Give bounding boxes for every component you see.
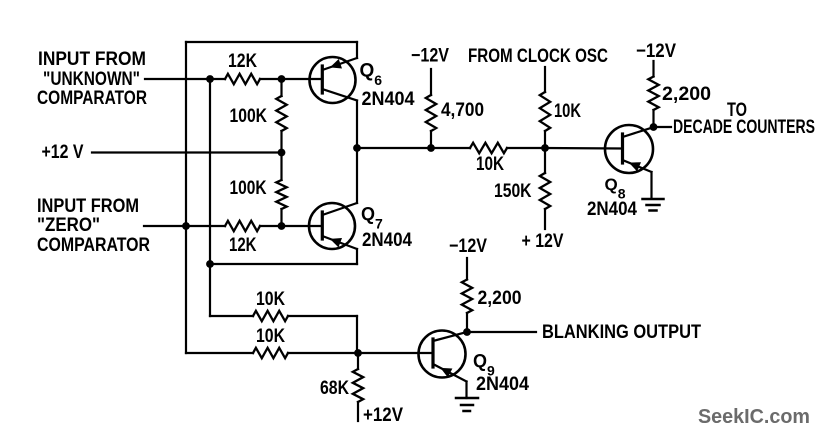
wire unknown input to 12K [145, 78, 225, 80]
wire collector node to 10K [357, 147, 470, 149]
svg-text:COMPARATOR: COMPARATOR [37, 235, 150, 256]
wire 10K vert to node [544, 131, 546, 148]
node 4,700 / signal wire [427, 144, 435, 152]
svg-text:−12V: −12V [449, 236, 487, 257]
node Q9 base / 10K / 68K [354, 349, 362, 357]
resistor 10K series [470, 143, 507, 153]
wire Q6 emitter riser [356, 42, 358, 58]
svg-text:−12V: −12V [411, 46, 449, 67]
wire node to decade counters [654, 126, 671, 128]
ground Q9 emitter [456, 398, 478, 411]
wire Q7 emitter drop [356, 249, 358, 264]
wire 2200 to collector node Q9 [466, 313, 468, 332]
svg-text:FROM CLOCK OSC: FROM CLOCK OSC [468, 46, 608, 67]
wire top rail [186, 41, 357, 43]
wire Q7 emitter rail [210, 263, 357, 265]
resistor 4,700 [426, 95, 436, 131]
wire +12V rail [92, 151, 282, 153]
svg-text:150K: 150K [494, 181, 532, 202]
node Q7 emitter rail / inner bus [206, 260, 214, 268]
resistor 10K row2 [253, 348, 288, 358]
svg-text:"ZERO": "ZERO" [37, 215, 100, 236]
wire -12V to 4700 [430, 69, 432, 95]
svg-text:12K: 12K [228, 51, 257, 72]
wire 4700 to node [430, 131, 432, 148]
wire left vertical bus [185, 42, 187, 353]
wire Q6 collector drop [356, 101, 358, 149]
node Q8 collector / 2,200 [650, 123, 658, 131]
resistor 12K upper [225, 74, 260, 84]
svg-text:+12V: +12V [363, 405, 403, 426]
resistor 10K clock [540, 92, 550, 131]
node 12K / 100K / Q7 base [278, 222, 286, 230]
wire -12V to 2200 Q8 [652, 61, 654, 77]
wire -12V to 2200 Q9 [466, 258, 468, 280]
wire row1 drop to row2 [356, 316, 358, 353]
resistor 68K [353, 369, 363, 402]
svg-text:100K: 100K [230, 106, 268, 127]
svg-text:68K: 68K [320, 378, 349, 399]
wire row1 10K left [210, 315, 253, 317]
wire 10K to clock node [507, 147, 545, 149]
resistor 150K [540, 173, 550, 209]
node zero input / left bus [182, 222, 190, 230]
wire 100K chain mid stub [280, 131, 282, 180]
svg-text:SeekIC.com: SeekIC.com [698, 406, 810, 428]
svg-text:100K: 100K [230, 178, 267, 199]
wire 68K to +12V [357, 402, 359, 421]
transistor Q6 [310, 57, 358, 103]
wire 100K chain upper stub [280, 79, 282, 96]
wire Q8 emitter drop [650, 172, 652, 198]
resistor 2,200 Q9 [462, 280, 472, 314]
wire blanking output [467, 331, 536, 333]
svg-text:2,200: 2,200 [662, 84, 711, 105]
wire 100K chain lower stub [280, 209, 282, 226]
svg-text:+ 12V: + 12V [522, 231, 564, 252]
node collector junction [353, 144, 361, 152]
wire 12K to Q6 base [260, 78, 322, 80]
transistor Q8 [605, 125, 654, 173]
wire node to 150K [544, 148, 546, 173]
svg-text:BLANKING OUTPUT: BLANKING OUTPUT [542, 322, 701, 343]
svg-text:10K: 10K [256, 289, 285, 310]
resistor 2,200 Q8 [648, 77, 658, 111]
svg-text:10K: 10K [256, 326, 285, 347]
ground Q8 emitter [643, 199, 664, 211]
svg-text:INPUT FROM: INPUT FROM [37, 196, 139, 217]
wire row2 10K to Q9 base [288, 352, 433, 354]
svg-text:2N404: 2N404 [476, 374, 529, 395]
svg-text:12K: 12K [229, 235, 257, 256]
wire clock node to Q8 base [545, 147, 623, 150]
node unknown input / inner bus [206, 75, 214, 83]
node Q9 collector / 2,200 / blanking [463, 328, 471, 336]
svg-text:"UNKNOWN": "UNKNOWN" [43, 69, 140, 90]
node 12K / 100K / Q6 base [278, 75, 286, 83]
transistor Q9 [419, 331, 468, 382]
wire 150K to +12V [544, 209, 546, 229]
node clock / 10K / 150K [541, 144, 549, 152]
svg-text:4,700: 4,700 [441, 100, 484, 121]
wire row1 10K right [288, 315, 357, 317]
svg-text:10K: 10K [476, 154, 504, 175]
svg-text:2N404: 2N404 [587, 199, 637, 220]
svg-text:DECADE COUNTERS: DECADE COUNTERS [673, 117, 815, 138]
svg-text:−12V: −12V [636, 41, 676, 62]
wire zero input to 12K [144, 225, 225, 227]
wire base node to 68K [357, 353, 359, 369]
wire row2 10K left [186, 352, 253, 354]
wire Q7 collector riser [356, 148, 358, 203]
wire Q9 emitter drop [465, 382, 467, 399]
svg-text:10K: 10K [554, 101, 581, 122]
resistor 10K row1 [253, 311, 288, 321]
svg-text:2N404: 2N404 [362, 230, 412, 251]
svg-text:+12 V: +12 V [42, 142, 84, 163]
svg-text:2N404: 2N404 [362, 89, 415, 110]
resistor 100K upper [276, 96, 286, 131]
svg-text:COMPARATOR: COMPARATOR [37, 88, 147, 109]
resistor 100K lower [276, 180, 286, 209]
wire inner vertical bus [209, 79, 211, 316]
svg-text:INPUT FROM: INPUT FROM [38, 49, 146, 70]
node +12V rail / 100K chain [278, 149, 286, 157]
wire 12K to Q7 base [260, 225, 322, 227]
svg-text:2,200: 2,200 [478, 288, 522, 309]
resistor 12K lower [225, 221, 260, 231]
wire 2200 to collector node Q8 [652, 110, 654, 127]
transistor Q7 [309, 203, 357, 249]
wire clock osc drop [544, 67, 546, 92]
